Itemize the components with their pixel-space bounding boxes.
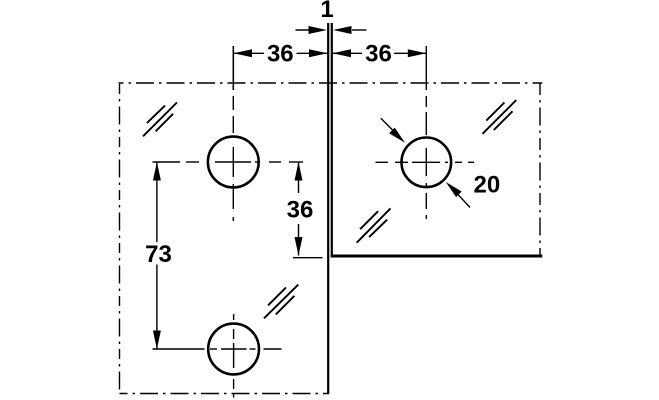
svg-text:73: 73 (145, 241, 172, 268)
svg-text:36: 36 (267, 41, 294, 68)
right glass panel left edge (331, 23, 333, 257)
left glass panel right edge (327, 23, 329, 394)
left glass panel left outline (dash-dot) (119, 84, 121, 394)
glass hatch symbol right panel top-right (483, 100, 517, 134)
right glass panel right outline (dash-dot) (539, 83, 541, 255)
right glass panel bottom edge (331, 255, 543, 258)
hole H1 horizontal centerline (186, 161, 303, 163)
diameter 20 leader arrow upper-left (381, 118, 405, 143)
dimension 36 vertical line and arrows (295, 162, 303, 256)
hole H3 right panel circle d20 (402, 138, 452, 188)
svg-text:36: 36 (365, 41, 392, 68)
glass hatch symbol left panel lower-right (264, 285, 298, 319)
glass hatch symbol right panel bottom-left (357, 208, 391, 242)
hole H2 horizontal centerline (210, 348, 282, 350)
dimension 73 line and arrows (153, 162, 161, 349)
svg-text:1: 1 (320, 0, 333, 23)
dimension 1 right arrow (333, 26, 367, 34)
dimension 36 left line and arrows (233, 49, 327, 57)
hole H3 vertical centerline (425, 46, 427, 219)
svg-text:20: 20 (474, 172, 501, 199)
hole H1 vertical centerline (232, 46, 234, 221)
dimension 73 extension line top (153, 161, 181, 163)
dimension 73 extension line bottom (153, 348, 205, 350)
left glass panel bottom outline (dash-dot) (120, 393, 330, 395)
hole H3 horizontal centerline (376, 161, 475, 163)
svg-text:36: 36 (287, 197, 314, 224)
hole H2 vertical centerline (233, 314, 235, 398)
hole H2 lower-left circle d20 (208, 324, 259, 375)
dimension 36 right line and arrows (333, 49, 427, 57)
diameter 20 leader arrow lower-right (446, 182, 470, 208)
glass hatch symbol left panel top-left (143, 103, 177, 137)
dimension 36 left extension line (232, 46, 234, 90)
dimension 1 left arrow (296, 26, 328, 34)
glass panels top outline (dash-dot) (119, 82, 543, 84)
dimension 36 vertical extension line bottom (293, 257, 323, 259)
hole H1 upper-left circle d20 (208, 137, 259, 188)
